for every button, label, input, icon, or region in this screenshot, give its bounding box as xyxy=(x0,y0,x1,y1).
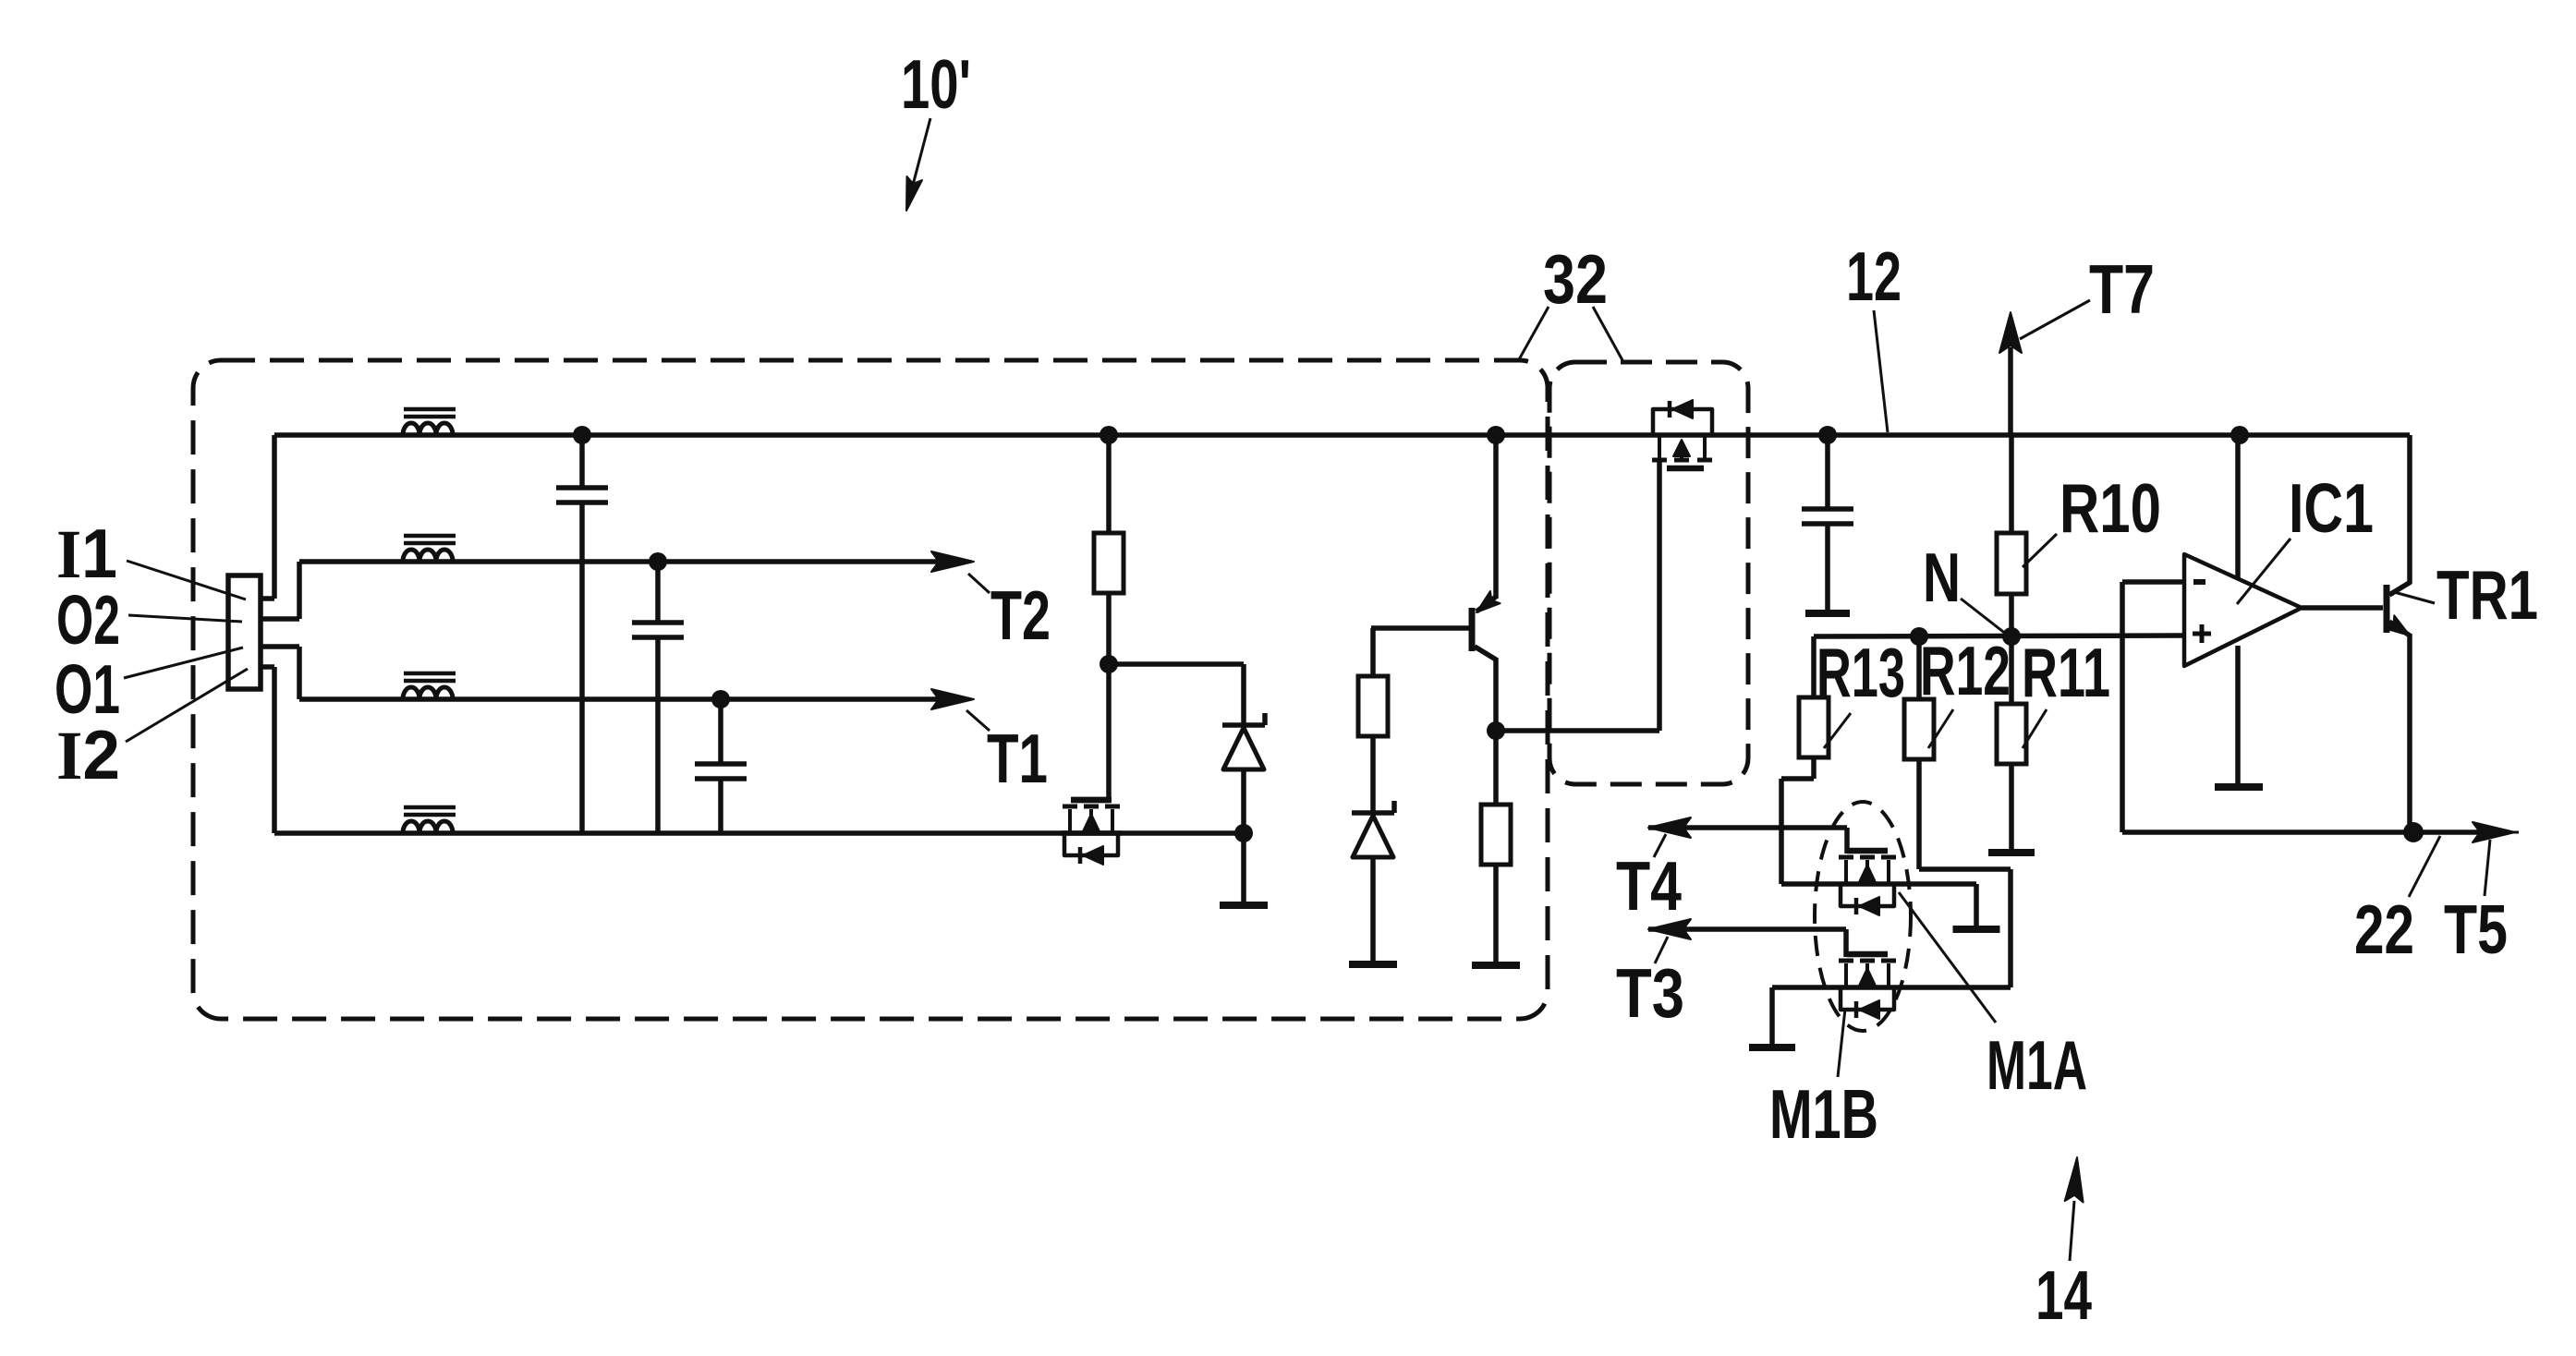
ground M1A xyxy=(1953,926,2000,933)
wire Q1 emitter drop xyxy=(1493,435,1499,599)
wire pin1 riser xyxy=(272,435,277,599)
wire collector to R-coll xyxy=(1493,731,1499,805)
inductor L4 xyxy=(403,821,453,833)
ground below D1 xyxy=(1220,902,1268,909)
wire to zener D1 xyxy=(1109,661,1244,667)
capacitor C3 xyxy=(718,699,723,764)
wire line4 return rail xyxy=(274,830,1244,836)
ground below R11 xyxy=(1988,849,2035,856)
capacitor C4 xyxy=(1825,435,1830,509)
capacitor C2 xyxy=(655,562,661,623)
ground IC1 xyxy=(2215,783,2263,791)
zener D2 xyxy=(1352,810,1394,816)
node 22 xyxy=(2403,822,2424,842)
svg-text:R13: R13 xyxy=(1817,634,1905,711)
wire IC1 power xyxy=(2235,435,2241,579)
svg-text:14: 14 xyxy=(2035,1256,2092,1334)
MOSFET M3 on line4 xyxy=(1071,797,1112,804)
svg-text:T3: T3 xyxy=(1616,954,1684,1032)
arrow T2 xyxy=(931,551,974,572)
svg-text:R10: R10 xyxy=(2060,469,2161,547)
svg-text:R12: R12 xyxy=(1920,632,2011,709)
wire line3 xyxy=(299,696,939,702)
op-amp IC1 xyxy=(2184,554,2302,666)
junction dot C2/line2 xyxy=(649,552,667,571)
svg-text:T7: T7 xyxy=(2089,250,2155,328)
ground below C4 xyxy=(1805,610,1850,617)
wire TR1 emitter drop xyxy=(2407,634,2412,832)
ground M1B xyxy=(1749,1044,1795,1051)
dashed box 32 xyxy=(1549,362,1748,784)
svg-text:M1A: M1A xyxy=(1987,1026,2087,1104)
module box 10' (dashed) xyxy=(193,360,1548,1019)
wire TR1 collector from rail xyxy=(2407,435,2412,584)
dashed ellipse around M1A/M1B xyxy=(1815,802,1911,1031)
junction dot D1/line4 xyxy=(1234,824,1253,842)
arrow T5 xyxy=(2413,829,2480,835)
wire pin3 dropper xyxy=(297,647,302,699)
MOSFET M1A xyxy=(1844,828,1850,854)
svg-text:O2: O2 xyxy=(56,581,120,659)
junction dot R-mid/line1 xyxy=(1100,426,1118,444)
resistor R10 xyxy=(2009,435,2014,533)
arrow T4 xyxy=(1648,825,1847,830)
wire pin2 riser xyxy=(297,562,302,619)
wire Q1 collector drop xyxy=(1493,658,1499,731)
wire line2 xyxy=(299,559,939,564)
wire N rail xyxy=(1814,636,2184,636)
junction dot C3/line3 xyxy=(711,690,730,708)
resistor R-mid xyxy=(1106,435,1112,533)
transistor Q1 xyxy=(1469,608,1476,651)
resistor R13 xyxy=(1811,636,1817,697)
wire base branch xyxy=(1370,628,1376,676)
svg-text:IC1: IC1 xyxy=(2289,469,2374,547)
svg-text:T1: T1 xyxy=(987,720,1048,797)
svg-text:R11: R11 xyxy=(2022,634,2110,711)
arrow T1 xyxy=(931,689,974,709)
junction dot gate node xyxy=(1100,655,1118,673)
inductor L3 xyxy=(403,687,453,699)
zener D1 xyxy=(1222,722,1265,728)
svg-text:TR1: TR1 xyxy=(2436,556,2538,634)
capacitor C1 xyxy=(579,435,585,488)
junction dot C1/line1 xyxy=(573,426,591,444)
resistor R-coll xyxy=(1481,805,1511,865)
inductor L2 xyxy=(403,550,453,562)
inductor L1 xyxy=(403,423,453,435)
svg-text:12: 12 xyxy=(1846,237,1902,315)
svg-text:32: 32 xyxy=(1543,240,1608,318)
MOSFET M1B xyxy=(1843,929,1849,957)
svg-text:T5: T5 xyxy=(2444,890,2508,968)
svg-text:I2: I2 xyxy=(56,716,120,794)
wire M2 gate xyxy=(1657,458,1662,731)
transistor TR1 xyxy=(2302,605,2383,611)
arrow T7 xyxy=(2008,347,2013,435)
wire drain drop xyxy=(1106,664,1112,803)
arrow T3 xyxy=(1648,926,1846,932)
junction dot C4/line1 xyxy=(1818,426,1837,444)
svg-text:M1B: M1B xyxy=(1769,1075,1878,1153)
node N xyxy=(2002,627,2021,646)
resistor R12 xyxy=(1916,636,1922,699)
junction dot gate of M2 xyxy=(1487,721,1505,740)
junction dot IC1 supply xyxy=(2230,426,2249,444)
ground below D2 xyxy=(1349,961,1397,968)
svg-text:T4: T4 xyxy=(1616,847,1682,925)
connector xyxy=(228,575,261,689)
resistor R11 xyxy=(2009,636,2014,704)
wire feedback xyxy=(2122,579,2184,585)
svg-text:10': 10' xyxy=(901,45,971,123)
MOSFET M2 (pass transistor) xyxy=(1653,409,1712,435)
junction dot Q1 emitter/line1 xyxy=(1487,426,1505,444)
wire pin4 dropper xyxy=(272,667,277,833)
svg-text:22: 22 xyxy=(2354,890,2414,968)
resistor R-base xyxy=(1358,676,1388,736)
svg-text:T2: T2 xyxy=(990,576,1051,654)
junction dot R12/N rail xyxy=(1910,627,1928,646)
svg-text:N: N xyxy=(1923,539,1961,616)
wire line1 supply rail xyxy=(274,432,2410,438)
ground below R-coll xyxy=(1472,962,1520,969)
